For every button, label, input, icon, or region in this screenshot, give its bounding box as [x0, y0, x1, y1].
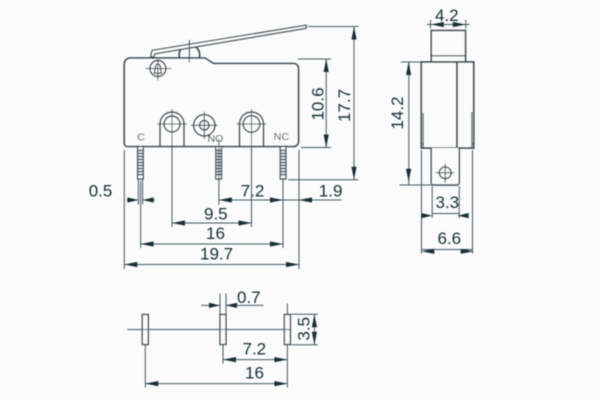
3.3 extensions: [431, 186, 433, 218]
pin section 1: [142, 315, 148, 345]
6.6 extensions: [421, 150, 423, 254]
side button: [431, 31, 465, 63]
terminal 3: [280, 147, 286, 180]
arrows 17.7: [351, 27, 356, 40]
extension terminal1 left edge: [137, 179, 139, 205]
arrows 6.6: [421, 249, 434, 254]
arrow 1.9: [299, 197, 312, 202]
3.5 dim line: [313, 314, 315, 345]
arrows 3.3: [421, 213, 432, 218]
svg-text:17.7: 17.7: [335, 89, 354, 122]
14.2 dim line: [408, 62, 410, 185]
bottom view group: [127, 315, 290, 345]
4.2 extension ticks: [430, 20, 432, 29]
dim row 9.5: [172, 222, 252, 224]
svg-text:3.5: 3.5: [295, 317, 314, 341]
stub above pin 3: [286, 304, 288, 315]
hole C outer: [160, 112, 184, 147]
arrows 9.5: [172, 220, 185, 225]
4.2 dim line: [427, 24, 470, 26]
svg-text:16: 16: [206, 224, 225, 243]
svg-text:9.5: 9.5: [204, 205, 228, 224]
mounting tab: [431, 148, 459, 185]
hole NO inner: [200, 121, 209, 130]
svg-text:7.2: 7.2: [241, 182, 265, 201]
bottom view arrows: [145, 303, 317, 386]
svg-text:16: 16: [245, 364, 264, 383]
svg-text:NO: NO: [208, 133, 224, 145]
extension terminal1 right edge: [142, 179, 144, 205]
17.7 extension top: [308, 26, 359, 28]
bottom centerline: [127, 329, 290, 331]
arrows 19.7: [124, 262, 137, 267]
svg-text:NC: NC: [274, 131, 290, 143]
hole NO outer: [194, 115, 215, 136]
arrows 3.5: [312, 314, 317, 327]
hole NC outer: [240, 112, 264, 146]
extension body right: [298, 150, 300, 269]
svg-text:1.9: 1.9: [319, 182, 343, 201]
centerline terminal 2: [218, 139, 220, 205]
3.3 dim lines: [432, 213, 459, 215]
svg-text:C: C: [137, 132, 145, 144]
tab hole: [439, 167, 451, 179]
pin section 2: [220, 315, 226, 345]
0.7 dim lines: [201, 304, 220, 306]
16 dim line: [145, 383, 287, 385]
svg-text:3.3: 3.3: [436, 193, 460, 212]
14.2 extension top: [401, 61, 422, 63]
16 extension: [144, 345, 146, 388]
hinge crosshair: [146, 68, 172, 70]
arrows 16: [145, 381, 158, 386]
side button flange line: [431, 55, 465, 57]
extension terminal3 center: [282, 178, 284, 248]
arrows 0.7: [209, 303, 220, 308]
hole NC inner: [243, 116, 260, 133]
front view dim texts: [89, 87, 354, 263]
svg-text:10.6: 10.6: [309, 87, 328, 120]
svg-text:19.7: 19.7: [200, 245, 233, 264]
hole C inner: [164, 116, 180, 132]
17.7 dim line: [353, 27, 355, 180]
front view arrows: [124, 27, 356, 268]
svg-text:0.5: 0.5: [89, 182, 113, 201]
extension body left: [123, 150, 125, 269]
svg-text:14.2: 14.2: [388, 96, 407, 129]
dim row 19.7: [124, 264, 299, 266]
lever arm: [151, 25, 306, 57]
dim row 16: [141, 243, 283, 245]
extension terminal1 center: [140, 181, 142, 248]
svg-text:7.2: 7.2: [243, 340, 267, 359]
hole NC crosshair: [237, 123, 267, 125]
arrows 0.5: [127, 197, 138, 202]
arrows 16: [141, 241, 154, 246]
3.5 extensions: [292, 313, 318, 315]
centerline below hole NC: [251, 139, 253, 227]
arrows 14.2: [406, 62, 411, 75]
bottom view dimensions: [145, 294, 317, 388]
hole C crosshair: [157, 123, 187, 125]
side body left inset: [422, 113, 424, 148]
side body: [421, 62, 473, 148]
10.6 extension top: [298, 58, 331, 60]
dim row 0.5 / 7.2 / 1.9: [127, 199, 138, 201]
side view group: [421, 31, 473, 186]
centerline below hole C: [171, 139, 173, 227]
side view dim texts: [388, 6, 461, 248]
hole NO crosshair: [191, 124, 218, 126]
hinge hole H1: [150, 61, 166, 77]
terminal 2: [216, 147, 222, 180]
switch body outline: [124, 58, 298, 147]
svg-text:6.6: 6.6: [438, 229, 462, 248]
bottom view dim texts: [237, 288, 314, 383]
side view dimensions: [400, 20, 473, 254]
14.2 extension bottom: [400, 184, 434, 186]
10.6 dim line: [325, 59, 327, 148]
front view dimensions: [124, 27, 358, 270]
pin section 3: [284, 315, 290, 345]
side body inner line: [456, 62, 458, 148]
button centerline: [188, 40, 190, 63]
svg-text:4.2: 4.2: [435, 6, 459, 25]
side body right inset: [471, 112, 473, 148]
17.7 extension bottom: [288, 179, 359, 181]
tab hole crosshair: [436, 172, 455, 174]
7.2 extensions: [222, 345, 224, 364]
svg-text:0.7: 0.7: [237, 288, 261, 307]
arrows 7.2: [219, 197, 232, 202]
arrows 7.2: [223, 357, 236, 362]
arrows 4.2: [431, 22, 444, 27]
terminal 1: [138, 147, 144, 180]
7.2 dim line: [223, 359, 287, 361]
push button circle: [179, 45, 200, 66]
6.6 dim line: [422, 249, 473, 251]
arrows 10.6: [324, 59, 329, 72]
front view group: [124, 25, 306, 179]
0.7 extensions: [219, 294, 221, 315]
side view arrows: [406, 22, 474, 254]
10.6 extension bottom: [301, 147, 331, 149]
hinge pin bell: [154, 64, 163, 73]
